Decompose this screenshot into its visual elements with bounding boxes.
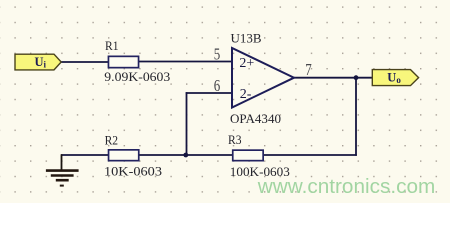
wire op-amp output pin 7 to Uo — [294, 77, 373, 79]
port Uo — [372, 70, 418, 86]
svg-text:U13B: U13B — [231, 32, 262, 46]
svg-text:R2: R2 — [105, 133, 119, 147]
wire op-amp pin 6 horizontal segment — [186, 92, 232, 94]
wire pin 6 vertical segment down to node — [186, 92, 188, 155]
svg-text:9.09K-0603: 9.09K-0603 — [104, 70, 170, 84]
resistor R1 — [108, 56, 138, 67]
port Ui — [15, 54, 61, 70]
svg-text:2-: 2- — [240, 87, 252, 102]
wire R2 to R3 — [139, 154, 232, 156]
wire feedback vertical segment — [355, 78, 357, 156]
svg-text:www.cntronics.com: www.cntronics.com — [257, 176, 436, 198]
svg-text:5: 5 — [214, 44, 221, 63]
svg-text:6: 6 — [214, 76, 221, 95]
op-amp U13B — [232, 48, 294, 108]
svg-text:7: 7 — [305, 60, 312, 79]
svg-text:OPA4340: OPA4340 — [230, 112, 281, 126]
resistor R3 — [233, 150, 263, 161]
svg-text:R1: R1 — [105, 39, 119, 53]
wire Ui to R1 — [60, 61, 108, 63]
resistor R2 — [109, 150, 139, 161]
svg-text:R3: R3 — [228, 133, 242, 147]
svg-text:10K-0603: 10K-0603 — [104, 164, 162, 178]
ground — [46, 154, 79, 185]
wire R1 to op-amp pin 5 — [139, 61, 232, 63]
svg-text:2+: 2+ — [239, 56, 254, 71]
junction node at output — [354, 75, 359, 80]
junction node at pin6/R2/R3 — [183, 153, 188, 158]
wire ground to R2 — [61, 154, 108, 156]
wire R3 to feedback vertical — [264, 154, 357, 156]
